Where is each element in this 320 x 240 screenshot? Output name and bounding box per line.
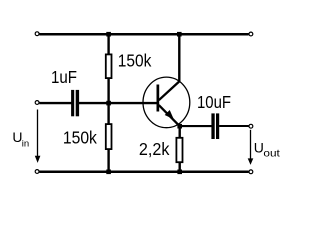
resistor R3 2,2k emitter — [176, 126, 182, 172]
resistor R1 150k upper — [106, 34, 112, 103]
transistor Q1 circle — [143, 77, 190, 128]
wire C1 to base — [79, 102, 157, 104]
node junction emitter — [177, 124, 182, 129]
terminal bottom-right — [249, 170, 253, 174]
transistor Q1 emitter — [159, 105, 180, 126]
node junction bottom R2 — [106, 170, 111, 175]
node junction base row — [106, 101, 111, 106]
terminal bottom-left — [35, 170, 39, 174]
transistor Q1 collector — [159, 34, 180, 100]
node junction top collector — [177, 32, 182, 37]
wire top rail — [39, 33, 248, 36]
svg-text:150k: 150k — [63, 127, 97, 147]
svg-text:in: in — [22, 139, 29, 150]
terminal top-right — [249, 32, 253, 36]
svg-text:1uF: 1uF — [51, 67, 77, 87]
svg-text:10uF: 10uF — [197, 92, 231, 112]
terminal output — [249, 124, 253, 128]
wire C2 to output — [219, 125, 249, 127]
terminal input — [35, 101, 39, 105]
svg-text:150k: 150k — [118, 50, 152, 70]
arrow U_out — [248, 130, 254, 165]
arrow U_in — [35, 110, 41, 163]
terminal top-left — [35, 32, 39, 36]
transistor Q1 base bar — [157, 85, 160, 112]
resistor R2 150k lower — [106, 103, 112, 172]
wire input to C1 — [39, 102, 71, 104]
wire bottom rail — [39, 171, 248, 174]
svg-text:out: out — [263, 148, 279, 160]
capacitor C1 1uF — [71, 90, 79, 116]
node junction top R1 — [106, 32, 111, 37]
svg-text:U: U — [254, 140, 264, 156]
svg-text:2,2k: 2,2k — [139, 139, 170, 159]
node junction bottom R3 — [177, 170, 182, 175]
capacitor C2 10uF — [211, 113, 219, 139]
wire emitter row to C2 — [180, 125, 212, 127]
